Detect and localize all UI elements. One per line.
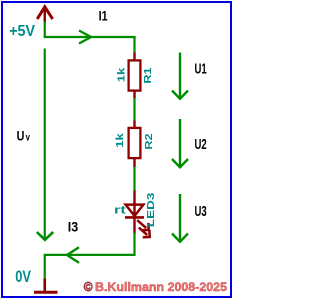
svg-text:rt: rt: [114, 204, 126, 216]
arrowhead I3 (down): [37, 232, 53, 240]
wire: top horizontal: [44, 36, 136, 38]
svg-text:LED3: LED3: [145, 192, 157, 227]
wire: ground stub green: [44, 254, 46, 279]
svg-text:©: ©: [84, 280, 94, 294]
border frame: [2, 2, 231, 297]
wire: green R2 to LED: [133, 167, 135, 192]
R1 bottom lead: [133, 91, 135, 99]
wire: green stub below +5V arrow: [44, 22, 46, 39]
LED3 anode lead: [133, 191, 135, 217]
svg-text:v: v: [26, 133, 31, 144]
ground lead dark red: [43, 279, 46, 292]
svg-text:U3: U3: [195, 204, 207, 220]
resistor R2: [129, 128, 141, 158]
svg-text:1k: 1k: [116, 68, 128, 83]
wire: green into R1: [133, 36, 135, 53]
wire: green R1 to R2: [133, 98, 135, 121]
voltage arrow U3: [172, 194, 188, 242]
LED3 triangle: [126, 205, 144, 216]
current arrow I1 (right): [79, 31, 91, 44]
LED3 emission arrow 1: [137, 220, 149, 230]
voltage arrow U1: [172, 53, 188, 99]
voltage arrow U2: [172, 119, 188, 167]
R2 bottom lead: [133, 159, 135, 168]
svg-text:U: U: [17, 128, 25, 143]
svg-text:+5V: +5V: [9, 23, 35, 40]
svg-text:R1: R1: [142, 67, 154, 83]
svg-text:B.Kullmann 2008-2025: B.Kullmann 2008-2025: [95, 280, 227, 294]
LED3 cathode bar: [125, 216, 144, 219]
LED3 emission arrow 2: [139, 228, 150, 238]
svg-text:U2: U2: [195, 137, 207, 153]
wire: LED down + bottom horizontal: [44, 233, 135, 255]
LED3 cathode lead: [133, 217, 135, 233]
svg-text:U1: U1: [195, 62, 207, 78]
svg-text:1k: 1k: [114, 133, 126, 148]
resistor R1: [129, 60, 141, 90]
R2 top lead: [133, 121, 135, 129]
svg-text:I1: I1: [99, 8, 108, 24]
+5V supply arrow (dark red, up): [37, 7, 52, 22]
ground bar: [34, 291, 58, 294]
svg-text:0V: 0V: [15, 268, 31, 286]
svg-text:R2: R2: [143, 133, 155, 149]
R1 top lead: [133, 53, 135, 61]
wire: left vertical (Uv branch): [44, 49, 46, 240]
svg-text:I3: I3: [68, 218, 79, 234]
current arrow on bottom wire (left): [67, 247, 79, 262]
